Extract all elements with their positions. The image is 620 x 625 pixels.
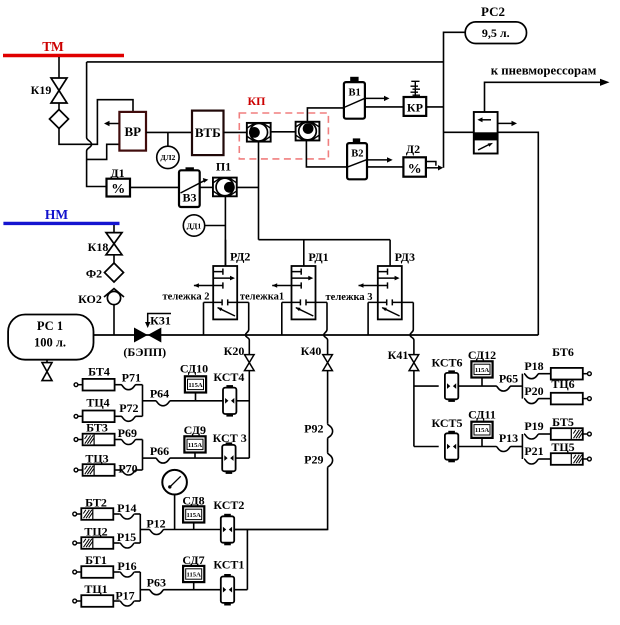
svg-text:БТ4: БТ4 <box>88 365 110 379</box>
svg-text:К41: К41 <box>388 348 409 362</box>
svg-text:Р65: Р65 <box>499 372 518 386</box>
reservoir RS1 <box>8 315 93 360</box>
svg-text:В1: В1 <box>348 87 360 98</box>
right group 5: KST5 SD11 <box>414 446 439 448</box>
svg-text:100 л.: 100 л. <box>34 336 66 350</box>
svg-text:КР: КР <box>407 100 423 114</box>
wire VR to VTB <box>146 131 192 133</box>
svg-text:ВР: ВР <box>124 124 141 139</box>
wire pump1 bottom drop <box>258 142 260 240</box>
svg-text:КСТ5: КСТ5 <box>431 416 462 430</box>
svg-text:БТ6: БТ6 <box>552 345 574 359</box>
svg-text:СД9: СД9 <box>184 423 206 437</box>
wire group4 out hose R64 <box>143 400 156 402</box>
valve K41 <box>409 355 419 371</box>
svg-text:КСТ2: КСТ2 <box>213 498 244 512</box>
svg-text:ВТБ: ВТБ <box>195 125 221 140</box>
svg-text:%: % <box>111 182 125 197</box>
wire top bus <box>87 61 444 63</box>
svg-text:РС 1: РС 1 <box>37 319 63 333</box>
svg-text:СД10: СД10 <box>180 361 208 375</box>
wire B1 to KR <box>365 106 404 108</box>
pressure relay RD2 <box>194 240 249 355</box>
svg-text:Р64: Р64 <box>150 387 169 401</box>
vent hook of D2 <box>426 162 436 166</box>
sensor DL2 <box>157 146 179 168</box>
wire VR bottom loop <box>87 144 120 159</box>
pump2 of KP <box>296 122 320 141</box>
svg-text:тележка1: тележка1 <box>240 292 284 303</box>
valve B1 <box>350 77 358 83</box>
svg-text:ТЦ5: ТЦ5 <box>551 440 574 454</box>
svg-text:К40: К40 <box>301 344 322 358</box>
svg-text:КСТ6: КСТ6 <box>431 356 462 370</box>
svg-text:БТ1: БТ1 <box>85 553 107 567</box>
wire main line <box>94 334 539 336</box>
arrow to air springs <box>485 82 602 112</box>
svg-text:П1: П1 <box>216 160 231 174</box>
svg-text:Р66: Р66 <box>150 444 169 458</box>
svg-text:В2: В2 <box>351 149 363 160</box>
branch R21 TC5 <box>524 459 539 464</box>
valve KR <box>404 97 427 116</box>
svg-text:СД11: СД11 <box>468 408 496 422</box>
svg-text:ТЦ1: ТЦ1 <box>84 582 107 596</box>
svg-text:КО2: КО2 <box>78 292 102 306</box>
wire pump1 to pump2 <box>271 131 296 133</box>
wire TM to K19 <box>58 57 60 78</box>
node NM supply blue busbar <box>3 222 119 225</box>
svg-text:9,5 л.: 9,5 л. <box>482 26 510 40</box>
svg-text:ТЦ6: ТЦ6 <box>551 377 574 391</box>
svg-text:КСТ4: КСТ4 <box>213 370 244 384</box>
svg-text:Р71: Р71 <box>122 371 141 385</box>
pump P1 <box>213 178 237 197</box>
arrow VR exhaust <box>107 123 119 125</box>
svg-text:БТ3: БТ3 <box>86 421 108 435</box>
wire D1 to V3 <box>130 186 179 188</box>
svg-text:Р21: Р21 <box>524 444 543 458</box>
sensor DD1 <box>183 215 204 236</box>
svg-text:%: % <box>408 162 422 177</box>
wire group1 out hose R63 <box>140 589 149 591</box>
svg-text:Р29: Р29 <box>304 452 323 466</box>
wire VTB to pump1 <box>224 131 247 133</box>
pressure relay RD3 <box>359 240 414 355</box>
svg-text:ТЦ4: ТЦ4 <box>86 395 109 409</box>
wire K20 down <box>248 371 250 459</box>
node TM supply red busbar <box>3 54 124 58</box>
filter F2 <box>105 263 124 282</box>
wire pump2 bottom to B2 <box>306 141 347 167</box>
valve K18 <box>106 233 122 255</box>
wire distribution bus <box>259 239 391 241</box>
check valve KO2 <box>104 289 124 298</box>
svg-text:Р14: Р14 <box>117 501 136 515</box>
svg-text:К18: К18 <box>88 240 109 254</box>
device D2 pressure reducer <box>403 157 426 176</box>
svg-text:СД12: СД12 <box>468 348 496 362</box>
svg-text:Р92: Р92 <box>304 421 323 435</box>
wire K18 to F2 <box>113 255 115 263</box>
svg-text:РД1: РД1 <box>308 250 328 264</box>
valve V3 <box>186 167 194 170</box>
valve block air spring regulator <box>474 112 498 154</box>
wire group3 out hose R66 <box>143 457 156 459</box>
valve K31 (BEPP) <box>134 328 148 343</box>
valve K20 <box>245 355 255 371</box>
wire P1 to pump drop <box>237 186 259 188</box>
wire DD1 to P1 drop <box>205 225 226 227</box>
wire left riser with hop <box>87 62 107 187</box>
svg-text:ТЦ3: ТЦ3 <box>85 451 108 465</box>
svg-text:Р19: Р19 <box>524 419 543 433</box>
pump1 of KP <box>247 123 271 142</box>
filter diamond under K19 <box>50 110 69 129</box>
svg-text:Р18: Р18 <box>524 359 543 373</box>
reservoir RS2 <box>465 22 526 44</box>
svg-text:Р70: Р70 <box>118 462 137 476</box>
svg-text:(БЭПП): (БЭПП) <box>123 345 166 359</box>
svg-text:НМ: НМ <box>45 207 69 222</box>
svg-text:К20: К20 <box>224 344 245 358</box>
svg-text:РД3: РД3 <box>395 250 415 264</box>
wire riser to valve block <box>444 131 474 133</box>
pressure gauge <box>162 470 187 495</box>
drain valve under RS1 <box>46 360 48 363</box>
device D1 pressure reducer <box>107 179 131 197</box>
svg-text:тележка 3: тележка 3 <box>326 292 373 303</box>
svg-text:КП: КП <box>247 94 266 108</box>
wire P1 bottom to RD2 <box>224 196 226 266</box>
wire KR to right riser <box>426 106 443 108</box>
wire KST2-KST1 link <box>246 530 248 590</box>
sensor DL2 stem <box>167 132 169 146</box>
svg-text:Ф2: Ф2 <box>86 267 102 281</box>
valve K19 <box>51 78 67 103</box>
branch R19 BT5 <box>524 434 539 439</box>
wire pump2 top to B1 <box>307 108 344 122</box>
wire D2 to riser with arrow <box>426 167 439 169</box>
valve B2 <box>353 138 360 143</box>
branch R20 TC6 <box>524 399 539 404</box>
wire RS2 riser <box>444 32 466 168</box>
wire filter to VR riser <box>59 100 133 145</box>
branch R18 BT6 <box>524 374 539 379</box>
wire NM to K18 <box>113 225 115 233</box>
arrow valve block outlet <box>498 122 513 124</box>
wire group2 out hose R12 <box>140 529 149 531</box>
svg-text:Р12: Р12 <box>146 517 165 531</box>
wire V3 to P1 <box>200 186 214 188</box>
device VR (air distributor) <box>119 112 146 151</box>
svg-text:Д2: Д2 <box>406 142 420 156</box>
svg-text:ДД1: ДД1 <box>187 221 202 230</box>
svg-text:Р16: Р16 <box>117 559 136 573</box>
svg-text:ДЛ2: ДЛ2 <box>160 153 175 162</box>
svg-text:КСТ1: КСТ1 <box>213 558 244 572</box>
svg-text:Р69: Р69 <box>118 426 137 440</box>
wire B2 to D2 <box>367 166 403 168</box>
pressure relay RD1 <box>272 240 327 355</box>
svg-text:Р63: Р63 <box>147 575 166 589</box>
spring of KR <box>411 81 421 97</box>
wire KO2 to main line <box>113 305 115 335</box>
valve K40 <box>323 355 333 371</box>
svg-text:РС2: РС2 <box>481 4 505 19</box>
svg-text:Р15: Р15 <box>117 530 136 544</box>
wire K41 down <box>413 371 415 447</box>
svg-text:Р20: Р20 <box>524 384 543 398</box>
svg-text:к пневморессорам: к пневморессорам <box>491 64 597 78</box>
svg-text:К31: К31 <box>150 314 171 328</box>
group KP dashed box <box>239 113 328 159</box>
right group 6: KST6 SD12 <box>414 385 439 387</box>
svg-text:БТ5: БТ5 <box>552 415 574 429</box>
svg-text:Р13: Р13 <box>499 431 518 445</box>
svg-text:тележка 2: тележка 2 <box>163 292 210 303</box>
wire K40 down with hoses R92 R29 <box>327 371 329 424</box>
svg-text:РД2: РД2 <box>230 250 250 264</box>
svg-text:К19: К19 <box>31 83 52 97</box>
svg-text:ТМ: ТМ <box>42 39 64 54</box>
svg-text:Р72: Р72 <box>119 401 138 415</box>
wire valve block to right riser <box>498 132 539 335</box>
svg-text:В3: В3 <box>182 191 196 205</box>
device VTB <box>192 111 224 156</box>
wire K19 to filter <box>58 103 60 110</box>
